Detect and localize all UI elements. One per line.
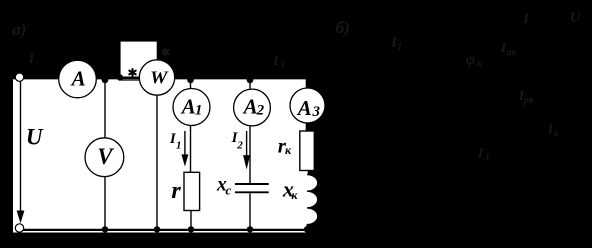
wire: bottom bus	[20, 229, 308, 231]
ammeter A1	[173, 89, 210, 126]
wire: branch 3 lower (below coil)	[306, 225, 308, 230]
current arrow I1	[184, 131, 186, 155]
junction dot bus A2-tap	[247, 76, 254, 83]
capacitor xc plates	[235, 184, 269, 192]
U arrowhead	[17, 211, 25, 224]
wire: branch 2 (xc) upper	[249, 78, 251, 183]
svg-text:I: I	[547, 123, 554, 138]
svg-text:3: 3	[279, 60, 285, 71]
svg-text:U: U	[26, 125, 44, 150]
junction dot bottom xk	[304, 226, 310, 232]
wire: wattmeter voltage branch	[156, 80, 158, 230]
voltmeter V	[85, 138, 124, 177]
circuit interior white region	[13, 79, 308, 232]
junction dot bottom xc	[247, 226, 253, 232]
svg-text:3: 3	[311, 104, 320, 120]
junction dot bus A1-tap	[187, 76, 194, 83]
svg-text:а): а)	[12, 20, 26, 39]
svg-text:рк: рк	[522, 95, 534, 106]
wattmeter asterisk	[129, 69, 135, 76]
svg-text:A: A	[296, 96, 312, 120]
terminal top-left	[15, 73, 23, 81]
svg-text:ак: ак	[506, 47, 517, 58]
wire: voltmeter branch	[104, 78, 106, 230]
wire: branch 1 (r) lower	[190, 211, 192, 230]
wire: branch 1 (r) upper	[190, 78, 192, 173]
terminal bottom-left	[15, 224, 23, 232]
ammeter A	[59, 60, 97, 98]
svg-text:1: 1	[397, 42, 402, 53]
svg-text:к: к	[285, 143, 292, 157]
svg-text:1: 1	[195, 103, 203, 119]
wattmeter voltage-coil box (white)	[120, 41, 157, 80]
svg-text:I: I	[28, 51, 36, 67]
svg-text:W: W	[150, 67, 169, 87]
resistor r (rectangle)	[184, 172, 200, 210]
svg-text:к: к	[477, 59, 483, 70]
svg-text:I: I	[522, 12, 529, 27]
junction dot bus V-tap	[102, 76, 109, 83]
faint asterisk (current coil)	[162, 49, 168, 56]
inductor coil xk	[307, 175, 318, 225]
junction dot bus W-tap	[117, 74, 123, 80]
svg-text:I: I	[477, 147, 484, 162]
svg-text:2: 2	[236, 140, 243, 152]
svg-text:c: c	[226, 183, 232, 198]
resistor rk (rectangle)	[300, 131, 315, 171]
svg-text:A: A	[70, 67, 86, 91]
svg-text:A: A	[180, 95, 196, 119]
svg-text:r: r	[171, 178, 181, 204]
wattmeter W	[139, 60, 174, 95]
current arrow I2	[246, 131, 248, 156]
ammeter A3	[290, 88, 325, 123]
svg-text:I: I	[272, 54, 279, 69]
svg-text:к: к	[291, 188, 298, 202]
junction dot bottom r	[188, 226, 194, 232]
ammeter A2	[234, 89, 271, 126]
svg-text:φ: φ	[466, 51, 475, 68]
svg-text:2: 2	[256, 103, 265, 119]
wire: branch 2 (xc) lower	[249, 193, 251, 229]
junction dot bottom W	[154, 226, 160, 232]
U source arrow shaft	[20, 82, 22, 212]
svg-text:A: A	[242, 95, 258, 119]
svg-text:U: U	[570, 10, 582, 26]
svg-text:3: 3	[483, 153, 489, 164]
svg-text:б): б)	[336, 18, 350, 37]
wire: top bus from left terminal to A3 branch corner	[20, 78, 308, 132]
svg-text:1: 1	[176, 140, 182, 152]
svg-text:V: V	[97, 144, 114, 169]
junction dot bottom V	[102, 226, 108, 232]
